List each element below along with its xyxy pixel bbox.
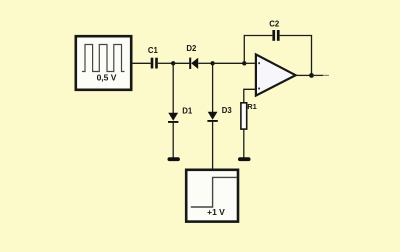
wire node B to D3	[212, 63, 214, 112]
node A	[171, 61, 175, 65]
wire C2 to output	[280, 36, 312, 76]
wire D2 to node B	[198, 62, 212, 64]
wire node C up to C2	[244, 36, 272, 64]
wire op-amp output to node D	[296, 74, 312, 76]
svg-text:C2: C2	[269, 20, 280, 29]
ground under R1	[238, 157, 251, 161]
wire op-amp lower input to R1	[244, 89, 256, 103]
node C	[242, 61, 246, 65]
wire node B to node C	[213, 62, 245, 64]
svg-text:0,5 V: 0,5 V	[97, 73, 117, 83]
capacitor C1	[151, 58, 158, 69]
svg-text:R1: R1	[247, 102, 257, 111]
wire R1 to ground	[243, 129, 245, 158]
resistor R1	[241, 103, 247, 129]
capacitor C2	[272, 30, 279, 41]
ground under D1	[168, 157, 180, 161]
step source V2	[186, 170, 238, 222]
wire D1 to ground	[172, 123, 174, 158]
wire source to C1	[132, 62, 151, 64]
svg-text:D1: D1	[182, 106, 193, 115]
wire node A to D2	[173, 62, 189, 64]
diode D1	[168, 113, 178, 123]
svg-text:C1: C1	[148, 46, 159, 55]
wire C1 to node A	[158, 62, 173, 64]
diode D2	[189, 58, 198, 69]
wire D3 to step source	[212, 122, 214, 169]
wire output tail	[312, 74, 330, 76]
svg-text:+1 V: +1 V	[207, 207, 225, 217]
op-amp U1	[256, 54, 296, 95]
node B	[210, 61, 214, 65]
diode D3	[207, 112, 217, 122]
svg-text:D2: D2	[186, 44, 197, 53]
wire node C to op-amp input	[244, 62, 256, 64]
wire node A to D1	[172, 63, 174, 113]
svg-text:D3: D3	[222, 106, 233, 115]
pulse source V1	[76, 36, 131, 90]
node D	[309, 73, 314, 78]
